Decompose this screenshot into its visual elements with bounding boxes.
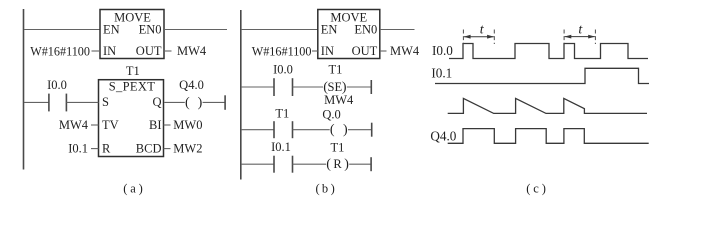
svg-text:): ) [139,182,143,196]
svg-text:MW4: MW4 [390,44,420,58]
svg-text:(: ( [326,157,331,172]
svg-text:MW4: MW4 [59,118,89,132]
wire: OUT to MW4 (a) [164,50,172,52]
MOVE block (b) [318,10,380,59]
svg-text:Q: Q [152,95,161,109]
svg-text:): ) [344,157,349,172]
signal label I0.1 (c) [431,65,452,80]
operand MW4 (a) [177,44,207,58]
coil Q.0 (b rung 3) [322,108,371,138]
svg-text:EN: EN [103,23,120,37]
svg-text:(: ( [185,95,190,110]
svg-text:I0.0: I0.0 [47,78,67,92]
waveform I0.0 [449,44,648,59]
svg-text:MW0: MW0 [173,118,202,132]
svg-text:): ) [343,123,348,138]
svg-text:S_PEXT: S_PEXT [109,80,156,94]
svg-text:Q4.0: Q4.0 [430,128,456,143]
svg-text:(: ( [526,182,530,196]
svg-text:I0.0: I0.0 [273,63,293,77]
svg-text:OUT: OUT [136,44,162,58]
caption (c) [526,182,546,196]
svg-text:W#16#1100: W#16#1100 [252,44,312,58]
svg-text:R: R [333,157,342,171]
time annotation t (second) [564,23,595,45]
MOVE block (a) [100,10,164,59]
operand BI to MW0 (a) [164,118,203,132]
wire: W#16#1100 to IN (b) [312,50,318,52]
svg-text:b: b [322,182,328,196]
waveform I0.1 [435,68,649,83]
operand MW4 below SE coil [324,93,354,107]
svg-text:T1: T1 [126,64,140,78]
svg-text:MW4: MW4 [324,93,354,107]
svg-text:I0.1: I0.1 [68,142,88,156]
svg-text:): ) [331,182,335,196]
svg-text:S: S [102,95,109,109]
svg-text:T1: T1 [331,140,345,154]
svg-text:EN0: EN0 [139,23,162,37]
svg-text:EN: EN [321,23,338,37]
svg-text:IN: IN [103,44,116,58]
svg-text:a: a [130,182,136,196]
wire: EN0 output (a) [164,29,227,31]
coil T1 (R) [326,140,371,172]
svg-text:(: ( [330,123,335,138]
operand W#16#1100 (b) [252,44,312,58]
wire: rail to MOVE EN (a) [24,29,100,31]
svg-text:BCD: BCD [136,142,162,156]
wire: OUT to MW4 (b) [380,50,387,52]
contact I0.1 (b rung 4) [241,140,326,173]
svg-text:T1: T1 [329,63,343,77]
timer label T1 (a) [126,64,140,78]
timer block S_PEXT T1 [99,80,164,157]
contact I0.0 (b) [241,63,323,97]
svg-text:MW2: MW2 [173,142,202,156]
time annotation t (first) [463,23,494,45]
waveform Q4.0 [448,129,649,144]
svg-text:W#16#1100: W#16#1100 [30,44,90,58]
operand W#16#1100 (a) [30,44,90,58]
svg-text:T1: T1 [275,107,289,121]
svg-text:IN: IN [321,44,334,58]
svg-text:EN0: EN0 [354,23,377,37]
svg-text:I0.1: I0.1 [431,65,452,80]
svg-text:(: ( [123,182,127,196]
svg-text:BI: BI [149,118,162,132]
svg-text:R: R [102,142,111,156]
svg-text:I0.0: I0.0 [432,43,453,58]
svg-text:OUT: OUT [352,44,378,58]
contact T1 (b rung 3) [241,107,330,139]
svg-text:Q.0: Q.0 [322,108,340,122]
signal label I0.0 (c) [432,43,453,58]
svg-text:MW4: MW4 [177,44,207,58]
wire: EN0 output (b) [380,29,415,31]
coil T1 (SE) [323,63,371,95]
wire: rail to MOVE EN (b) [241,29,318,31]
operand BCD to MW2 (a) [164,142,203,156]
svg-text:TV: TV [102,118,119,132]
contact I0.0 (a) [24,78,99,111]
svg-text:(: ( [316,182,320,196]
signal label Q4.0 (c) [430,128,456,143]
svg-text:I0.1: I0.1 [271,140,291,154]
operand MW4 (b) [390,44,420,58]
waveform timer value (sawtooth) [448,98,647,113]
svg-text:Q4.0: Q4.0 [179,78,204,92]
svg-text:): ) [542,182,546,196]
svg-text:c: c [533,182,539,196]
caption (b) [316,182,335,196]
left power rail (b) [240,10,242,180]
svg-text:): ) [198,95,203,110]
left power rail (a) [23,9,25,170]
wire: W#16#1100 to IN (a) [92,50,101,52]
operand I0.1 to R (a) [68,142,98,156]
svg-text:SE: SE [328,80,343,94]
coil Q4.0 (a) [164,78,225,110]
operand MW4 to TV (a) [59,118,99,132]
caption (a) [123,182,143,196]
